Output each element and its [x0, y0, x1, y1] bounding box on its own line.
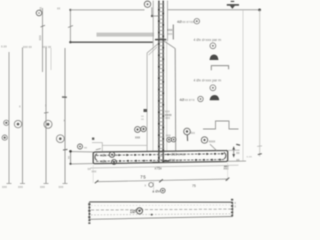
svg-text:xxx: xxx: [2, 185, 7, 189]
left flare diagonal 2: [149, 47, 157, 55]
rebar hook right end: [224, 152, 226, 158]
plan faint upper row: [91, 204, 231, 207]
svg-text:xx: xx: [66, 156, 70, 160]
svg-text:xx: xx: [84, 145, 88, 149]
dark mark on wall face: [144, 109, 148, 112]
svg-text:xxx: xxx: [165, 116, 170, 120]
dark mark on bar 4 top: [62, 96, 67, 98]
svg-text:xxx: xxx: [59, 185, 64, 189]
pavement gray band: [97, 33, 155, 37]
bar mark circle 3: [44, 120, 52, 128]
stem rebar ladder rails: [158, 1, 160, 164]
svg-text:xØx: xØx: [101, 154, 107, 158]
left footing bottom extension: [71, 163, 94, 165]
bar-bend blob row 2: [210, 95, 220, 100]
plan lower row: [91, 214, 231, 215]
svg-text:xx e=x: xx e=x: [185, 98, 195, 102]
three-row text block right of stem at base: [165, 110, 172, 121]
wire: top horizontal line left span: [70, 9, 144, 11]
dot top of left dim: [69, 150, 72, 153]
svg-text:4xx: 4xx: [190, 131, 195, 135]
tick on bar 4: [63, 148, 68, 151]
bar shape hat profile: [203, 121, 239, 129]
far right vertical extension line: [259, 10, 261, 157]
plan center label: [130, 208, 143, 214]
svg-text:xxx: xxx: [224, 166, 229, 170]
tick on bar 3: [44, 111, 49, 114]
bar line 3: [45, 48, 47, 184]
label 4phi upper right of stem: [177, 19, 200, 25]
svg-text:xxx: xxx: [18, 185, 23, 189]
tick above footing left end: [96, 149, 101, 150]
circle 13 with text and diagonal leader: [201, 137, 216, 151]
rotated label cluster at top of line A: [36, 7, 42, 41]
svg-text:xxx: xxx: [40, 185, 45, 189]
right end vertical dimension: [232, 147, 235, 158]
circle label for blinding layer: [78, 144, 88, 149]
bar shape bracket: [211, 66, 228, 71]
svg-text:x.xx: x.xx: [1, 45, 7, 49]
svg-text:xxxx: xxxx: [209, 139, 216, 143]
plan view left end: [88, 202, 90, 219]
right end extension line top: [228, 149, 240, 151]
dark tick above right dimension: [236, 143, 240, 146]
svg-text:xxx: xxx: [38, 35, 42, 41]
datum level symbol top right: [227, 1, 239, 8]
svg-text:xx: xx: [236, 151, 240, 155]
bar line 4: [64, 48, 66, 184]
footing outline: [93, 151, 228, 164]
svg-text:xØx: xØx: [101, 160, 107, 164]
terrain step left of wall: [92, 143, 147, 152]
buried wall right face: [174, 49, 177, 152]
label above plan view: [152, 188, 165, 193]
svg-text:75: 75: [140, 174, 146, 179]
short line A with label cluster: [42, 8, 44, 72]
footing top rebar chain: [96, 152, 225, 158]
rebar hook left end: [95, 154, 97, 160]
footing bottom rebar chain: [96, 158, 225, 164]
svg-text:xx: xx: [236, 158, 240, 162]
svg-text:xx: xx: [57, 6, 61, 10]
small circle below dim line: [145, 183, 154, 188]
left footing-height dimension vertical: [70, 151, 72, 164]
corner junction dot: [69, 9, 71, 11]
svg-text:xxx: xxx: [168, 32, 173, 36]
circled mark row 2: [210, 85, 216, 91]
svg-text:xx e=xx: xx e=xx: [182, 20, 194, 24]
svg-text:1Ø: 1Ø: [130, 209, 136, 214]
svg-text:Ø10 e=xx: Ø10 e=xx: [171, 153, 186, 157]
footing extension line left down: [92, 165, 94, 183]
corner dot far right: [258, 9, 261, 12]
left footing-height dim top line: [71, 151, 94, 153]
ground corner dot: [69, 41, 71, 43]
bar mark circle 2: [14, 120, 21, 127]
tick crossing line A: [41, 25, 46, 27]
faint vertical below dim: [153, 182, 155, 191]
circle with leader down to footing: [184, 128, 191, 141]
tick near bottom of far right line: [258, 154, 262, 155]
svg-text:xxx: xxx: [166, 133, 171, 137]
stem right face above ground: [167, 1, 169, 42]
svg-text:xxx xx: xxx xx: [42, 45, 51, 49]
text smear column at plan right end: [231, 199, 233, 217]
plan centerline dashed: [91, 208, 231, 211]
stem rebar bead dots: [158, 9, 164, 163]
plan view right end: [232, 202, 234, 216]
right end extension line bottom: [228, 160, 246, 162]
dot on plan lower row: [151, 214, 153, 216]
stem left face hidden continuation: [152, 46, 154, 152]
short vertical line right of stem upper: [172, 25, 174, 40]
bar mark circle 1b: [2, 135, 7, 140]
bar mark circle 1a: [4, 120, 9, 125]
stem ladder rungs: [158, 4, 165, 160]
bar mark circle 4: [56, 135, 64, 143]
svg-text:xxx: xxx: [92, 170, 97, 174]
dimension tick on left extension: [68, 26, 73, 28]
svg-text:xxx xx: xxx xx: [23, 45, 32, 49]
text smear column at plan left end: [88, 203, 90, 224]
right vertical extension line: [242, 10, 244, 161]
circled mark row 1: [210, 43, 216, 49]
circle pair right of stem above footing: [166, 133, 176, 142]
bar bottom ticks: [7, 183, 68, 185]
label 4phi mid right of stem: [180, 96, 204, 102]
svg-text:Ø10 e=x: Ø10 e=x: [169, 158, 182, 162]
dark construction joint tick across stem: [155, 39, 166, 41]
dark mark left of terrain step: [92, 138, 94, 140]
stem base hooks: [153, 161, 170, 163]
footing extension line right down: [227, 163, 229, 181]
blinding layer line under footing: [91, 165, 230, 168]
circles left of stem above footing: [135, 126, 147, 139]
bar line 1: [8, 52, 10, 184]
wire: top horizontal line right span: [168, 9, 260, 11]
svg-text:4 Øx d=xxx par m: 4 Øx d=xxx par m: [194, 38, 222, 42]
buried wall left face: [146, 53, 148, 152]
svg-text:4 Øx d=xxx par m: 4 Øx d=xxx par m: [194, 78, 222, 82]
bottom dimension line of footing: [95, 178, 230, 184]
bar-bend blob row 1: [210, 55, 219, 61]
left flare diagonal 1: [147, 44, 158, 53]
short faint line A2: [50, 48, 52, 70]
tick below footing right end: [224, 165, 229, 167]
svg-text:x.xx: x.xx: [247, 155, 253, 159]
svg-text:xxx: xxx: [135, 135, 140, 139]
svg-text:75: 75: [192, 184, 196, 188]
wire: left vertical extension line: [69, 10, 71, 43]
svg-text:x75x: x75x: [155, 167, 162, 171]
callout circle top with leader: [144, 1, 158, 17]
stem right face hidden continuation: [166, 41, 168, 152]
ground line left (dark): [69, 41, 152, 43]
bar bottom texts: [2, 185, 64, 189]
bar line 2: [22, 48, 24, 184]
plan view bottom edge: [89, 217, 232, 220]
faint tick on far right line: [257, 145, 262, 148]
plan view top edge: [89, 201, 232, 203]
right flare diagonal: [164, 41, 175, 49]
svg-text:a Øx: a Øx: [152, 189, 160, 193]
dot bottom of left dim: [69, 163, 71, 165]
stem left face above ground: [152, 1, 154, 47]
svg-text:xx: xx: [39, 7, 43, 11]
right end blinding extension: [229, 164, 239, 166]
